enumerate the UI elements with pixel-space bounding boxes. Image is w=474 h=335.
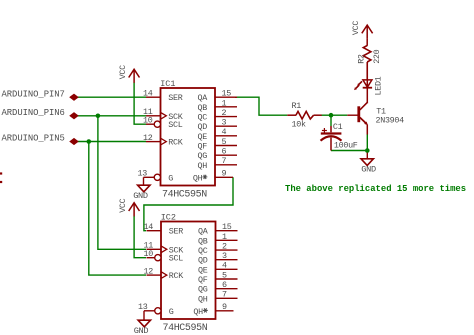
svg-text:GND: GND (134, 326, 149, 335)
svg-text:SCL: SCL (169, 254, 183, 264)
svg-text:QA: QA (198, 93, 209, 103)
svg-text:12: 12 (143, 133, 153, 143)
svg-text:IC2: IC2 (161, 212, 176, 222)
svg-text:VCC: VCC (118, 65, 128, 79)
svg-text:3: 3 (222, 118, 227, 128)
svg-text:10k: 10k (292, 120, 306, 130)
svg-text:QF: QF (198, 275, 208, 285)
svg-text:LED1: LED1 (374, 76, 384, 95)
svg-text:1: 1 (222, 98, 227, 108)
svg-text:9: 9 (222, 302, 227, 312)
svg-text:QH: QH (198, 294, 208, 304)
svg-text:QC: QC (198, 113, 208, 123)
svg-text:SCL: SCL (168, 120, 182, 130)
svg-text:QF: QF (198, 142, 208, 152)
svg-text:SER: SER (169, 227, 183, 237)
svg-text:QH: QH (198, 161, 208, 171)
svg-text:QG: QG (198, 285, 208, 295)
svg-text:QA: QA (198, 227, 209, 237)
svg-text:15: 15 (222, 89, 232, 99)
svg-text:6: 6 (222, 280, 227, 290)
svg-text:RCK: RCK (168, 138, 183, 148)
svg-text:13: 13 (138, 302, 148, 312)
svg-text:4: 4 (222, 261, 227, 271)
svg-text:VCC: VCC (351, 21, 361, 35)
svg-text:GND: GND (133, 191, 148, 201)
svg-text:QH: QH (193, 307, 203, 317)
svg-text:ARDUINO_PIN7: ARDUINO_PIN7 (2, 89, 65, 99)
svg-text:220: 220 (372, 49, 382, 63)
svg-text:R2: R2 (357, 54, 367, 64)
svg-text:15: 15 (222, 222, 232, 232)
svg-text:GND: GND (361, 164, 376, 174)
svg-text:RCK: RCK (169, 271, 184, 281)
svg-text:ARDUINO_PIN5: ARDUINO_PIN5 (2, 134, 65, 144)
svg-text:6: 6 (222, 147, 227, 157)
svg-text:SER: SER (168, 93, 182, 103)
svg-text:R1: R1 (292, 101, 302, 111)
svg-text:14: 14 (144, 222, 154, 232)
svg-text:74HC595N: 74HC595N (163, 323, 208, 334)
svg-text:QG: QG (198, 151, 208, 161)
svg-text:74HC595N: 74HC595N (162, 189, 207, 200)
svg-text:G: G (169, 307, 174, 317)
svg-text:QD: QD (198, 122, 208, 132)
svg-text:14: 14 (143, 89, 153, 99)
svg-text:QE: QE (198, 265, 208, 275)
svg-text:12: 12 (144, 267, 154, 277)
svg-text:QH: QH (193, 173, 203, 183)
svg-text:QB: QB (198, 236, 208, 246)
svg-text:5: 5 (222, 270, 227, 280)
svg-text:7: 7 (222, 156, 227, 166)
svg-text:C1: C1 (333, 122, 343, 132)
svg-text:10: 10 (143, 116, 153, 126)
svg-text:100uF: 100uF (334, 140, 358, 150)
svg-text:G: G (168, 173, 173, 183)
svg-text:QE: QE (198, 132, 208, 142)
svg-text:QB: QB (198, 103, 208, 113)
svg-text:QD: QD (198, 256, 208, 266)
svg-text:13: 13 (138, 169, 148, 179)
svg-text:2N3904: 2N3904 (376, 116, 405, 126)
svg-text:ARDUINO_PIN6: ARDUINO_PIN6 (2, 108, 65, 118)
svg-text:5: 5 (222, 137, 227, 147)
svg-text:7: 7 (222, 290, 227, 300)
svg-text:2: 2 (222, 241, 227, 251)
svg-text:10: 10 (144, 249, 154, 259)
svg-text:VCC: VCC (118, 198, 128, 212)
svg-text:1: 1 (222, 232, 227, 242)
svg-text:IC1: IC1 (160, 79, 175, 89)
svg-text:QC: QC (198, 246, 208, 256)
svg-text:The above replicated 15 more t: The above replicated 15 more times (285, 184, 466, 194)
svg-text:2: 2 (222, 108, 227, 118)
svg-text:4: 4 (222, 127, 227, 137)
svg-text:9: 9 (222, 169, 227, 179)
svg-text:3: 3 (222, 251, 227, 261)
